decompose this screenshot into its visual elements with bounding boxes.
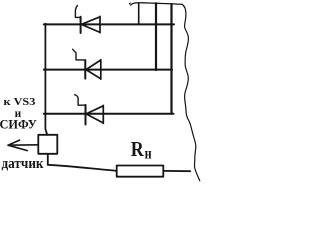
svg-text:R: R <box>131 137 145 161</box>
wire resistor to break line <box>163 170 190 172</box>
thyristor VS3 cathode bar <box>85 105 87 125</box>
arrow to SIFU <box>8 140 38 151</box>
phase tap 3 (vertical) <box>170 4 172 114</box>
thyristor VS2 gate <box>73 49 86 60</box>
svg-text:датчик: датчик <box>2 156 45 172</box>
wire row 1 (anode line VS1) <box>44 23 174 25</box>
thyristor VS2 cathode bar <box>84 60 86 78</box>
svg-text:СИФУ: СИФУ <box>0 117 37 131</box>
svg-text:н: н <box>145 145 152 162</box>
wire row 2 (anode line VS2) <box>44 69 172 71</box>
wire block to bottom <box>47 154 49 165</box>
thyristor VS2 triangle <box>86 60 101 80</box>
top supply bus <box>128 2 131 5</box>
torn-page squiggle (right edge break line) <box>182 4 200 181</box>
phase tap 2 (vertical) <box>155 3 157 70</box>
thyristor VS1 gate <box>75 6 80 18</box>
left cathode bus <box>45 24 47 135</box>
load resistor Rn box <box>117 166 164 177</box>
phase tap 1 (vertical) <box>138 3 140 24</box>
thyristor VS3 gate <box>75 95 86 106</box>
thyristor VS3 triangle <box>86 105 103 123</box>
thyristor VS1 cathode bar <box>80 17 82 33</box>
wire row 3 (anode line VS3) <box>44 113 174 115</box>
bottom wire to load <box>48 165 117 171</box>
sensor block (датчик) <box>38 135 57 154</box>
thyristor VS1 triangle <box>81 16 100 32</box>
svg-text:к VS3: к VS3 <box>4 97 36 108</box>
